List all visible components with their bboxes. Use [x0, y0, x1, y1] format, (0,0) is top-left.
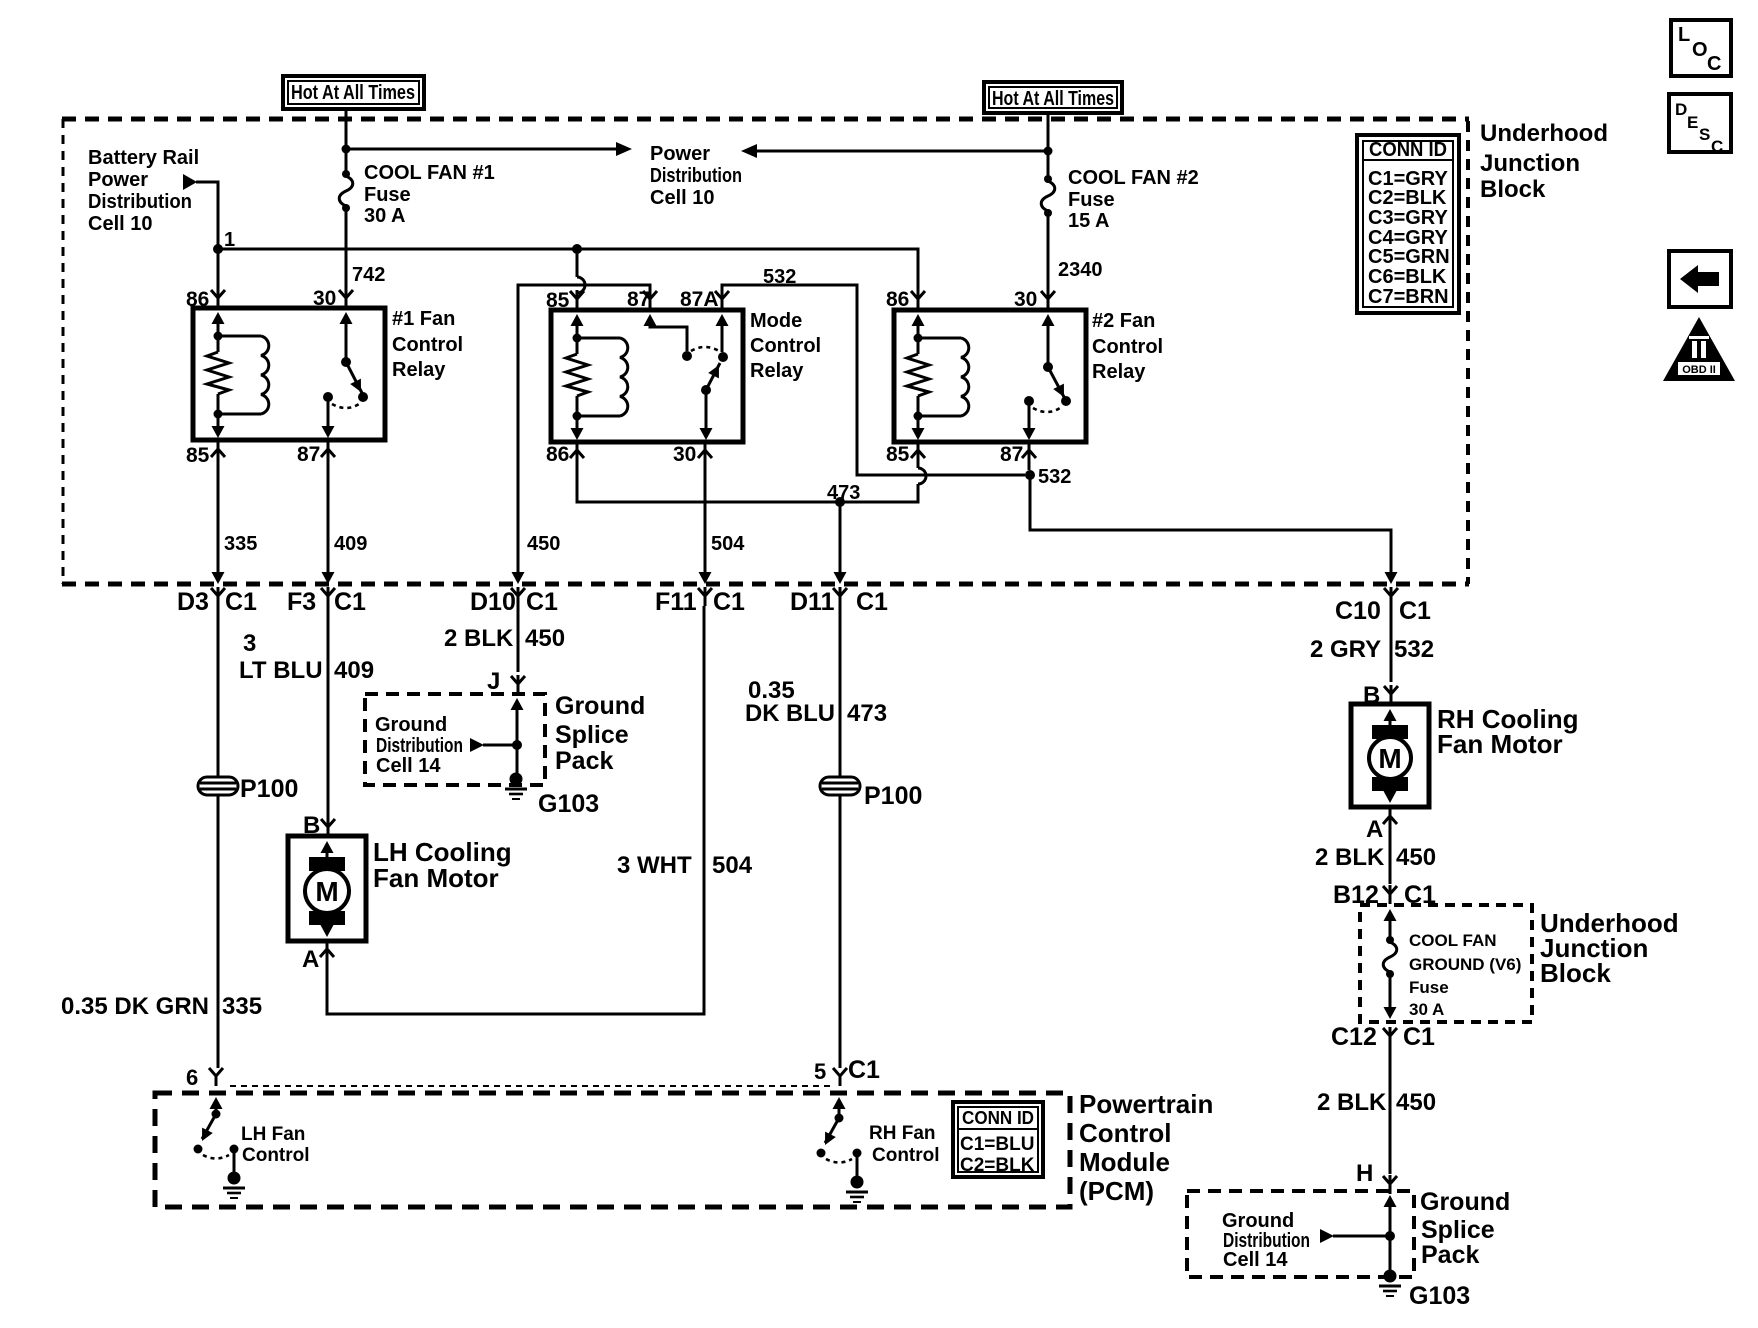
svg-text:85: 85 [546, 289, 570, 312]
svg-text:B12: B12 [1333, 881, 1379, 909]
svg-text:Block: Block [1540, 958, 1611, 988]
svg-text:87: 87 [627, 288, 650, 311]
svg-text:Junction: Junction [1480, 150, 1580, 177]
svg-text:C2=BLK: C2=BLK [1368, 187, 1447, 209]
svg-text:Control: Control [872, 1145, 940, 1166]
svg-text:Distribution: Distribution [88, 191, 192, 213]
svg-text:Cell 14: Cell 14 [376, 755, 441, 777]
svg-text:COOL FAN #2: COOL FAN #2 [1068, 167, 1199, 189]
svg-text:RH Fan: RH Fan [869, 1123, 936, 1144]
svg-text:85: 85 [886, 443, 910, 466]
svg-text:H: H [1356, 1160, 1373, 1187]
svg-text:30: 30 [1014, 288, 1037, 311]
svg-text:Powertrain: Powertrain [1079, 1089, 1213, 1119]
svg-text:Ground: Ground [1222, 1210, 1294, 1232]
svg-text:D: D [1675, 100, 1687, 119]
svg-text:CONN ID: CONN ID [962, 1108, 1034, 1128]
svg-text:P100: P100 [864, 782, 922, 810]
svg-text:473: 473 [827, 482, 860, 504]
svg-text:DK BLU: DK BLU [745, 700, 835, 727]
svg-text:30 A: 30 A [364, 205, 406, 227]
svg-text:504: 504 [712, 852, 753, 879]
svg-text:86: 86 [886, 288, 909, 311]
svg-text:30: 30 [313, 287, 336, 310]
svg-text:C1: C1 [334, 588, 366, 616]
svg-text:450: 450 [1396, 1089, 1436, 1116]
svg-text:Block: Block [1480, 176, 1546, 203]
svg-text:C1=BLU: C1=BLU [960, 1134, 1034, 1155]
svg-text:Ground: Ground [555, 692, 645, 720]
svg-text:COOL FAN #1: COOL FAN #1 [364, 162, 495, 184]
svg-text:Control: Control [1079, 1118, 1171, 1148]
svg-text:Control: Control [392, 334, 463, 356]
svg-text:C6=BLK: C6=BLK [1368, 266, 1447, 288]
svg-text:504: 504 [711, 533, 745, 555]
svg-text:C12: C12 [1331, 1023, 1377, 1051]
svg-text:473: 473 [847, 700, 887, 727]
svg-text:86: 86 [186, 288, 209, 311]
svg-text:A: A [302, 946, 319, 973]
svg-text:C1: C1 [713, 588, 745, 616]
svg-text:335: 335 [224, 533, 257, 555]
svg-text:Control: Control [750, 335, 821, 357]
svg-text:Cell 10: Cell 10 [88, 213, 152, 235]
svg-text:D3: D3 [177, 588, 209, 616]
svg-text:C7=BRN: C7=BRN [1368, 286, 1449, 308]
svg-text:M: M [315, 876, 338, 907]
svg-text:Pack: Pack [555, 747, 613, 775]
svg-text:Battery Rail: Battery Rail [88, 147, 199, 169]
svg-text:C10: C10 [1335, 597, 1381, 625]
svg-text:Control: Control [242, 1145, 310, 1166]
svg-text:E: E [1687, 113, 1698, 132]
svg-text:409: 409 [334, 657, 374, 684]
svg-text:D10: D10 [470, 588, 516, 616]
svg-text:87: 87 [1000, 443, 1023, 466]
svg-text:LH Fan: LH Fan [241, 1124, 305, 1145]
svg-text:C2=BLK: C2=BLK [960, 1155, 1035, 1176]
svg-text:2 GRY: 2 GRY [1310, 636, 1381, 663]
svg-text:COOL FAN: COOL FAN [1409, 931, 1497, 950]
svg-text:#1 Fan: #1 Fan [392, 308, 455, 330]
svg-text:Fan Motor: Fan Motor [1437, 729, 1563, 759]
svg-text:Cell 10: Cell 10 [650, 187, 714, 209]
svg-text:532: 532 [1038, 466, 1071, 488]
svg-text:Fan Motor: Fan Motor [373, 863, 499, 893]
svg-text:Hot At All Times: Hot At All Times [992, 88, 1114, 110]
svg-text:742: 742 [352, 264, 385, 286]
svg-text:GROUND (V6): GROUND (V6) [1409, 955, 1521, 974]
svg-text:Relay: Relay [750, 360, 804, 382]
svg-text:C3=GRY: C3=GRY [1368, 207, 1449, 229]
svg-text:2 BLK: 2 BLK [444, 625, 514, 652]
svg-text:Fuse: Fuse [1068, 189, 1115, 211]
svg-text:87A: 87A [680, 288, 719, 311]
svg-text:Distribution: Distribution [376, 735, 463, 757]
svg-text:C1: C1 [1403, 1023, 1435, 1051]
svg-text:0.35 DK GRN: 0.35 DK GRN [61, 993, 209, 1020]
svg-text:A: A [1366, 816, 1383, 843]
svg-text:Relay: Relay [392, 359, 446, 381]
svg-text:87: 87 [297, 443, 320, 466]
svg-text:Splice: Splice [1421, 1216, 1495, 1244]
svg-text:Splice: Splice [555, 721, 629, 749]
svg-text:532: 532 [1394, 636, 1434, 663]
svg-text:450: 450 [527, 533, 560, 555]
svg-text:30 A: 30 A [1409, 1000, 1444, 1019]
svg-text:OBD II: OBD II [1682, 364, 1716, 376]
svg-text:Distribution: Distribution [650, 165, 742, 187]
svg-text:#2 Fan: #2 Fan [1092, 310, 1155, 332]
svg-text:S: S [1699, 125, 1710, 144]
svg-text:F11: F11 [655, 588, 697, 616]
svg-text:C1: C1 [1399, 597, 1431, 625]
svg-text:C1: C1 [856, 588, 888, 616]
svg-text:Module: Module [1079, 1147, 1170, 1177]
svg-text:M: M [1378, 743, 1401, 774]
svg-text:3: 3 [243, 630, 256, 657]
svg-text:Ground: Ground [375, 714, 447, 736]
svg-text:30: 30 [673, 443, 696, 466]
svg-text:C: C [1707, 53, 1721, 75]
svg-text:P100: P100 [240, 775, 298, 803]
svg-text:86: 86 [546, 443, 569, 466]
svg-text:C1: C1 [848, 1056, 880, 1084]
svg-text:Fuse: Fuse [364, 184, 411, 206]
svg-text:85: 85 [186, 444, 210, 467]
svg-text:Underhood: Underhood [1480, 120, 1608, 147]
svg-text:Control: Control [1092, 336, 1163, 358]
svg-text:G103: G103 [538, 790, 599, 818]
svg-text:C5=GRN: C5=GRN [1368, 246, 1450, 268]
svg-text:D11: D11 [790, 588, 835, 616]
svg-text:Hot At All Times: Hot At All Times [291, 82, 415, 104]
svg-text:Relay: Relay [1092, 361, 1146, 383]
svg-text:J: J [487, 668, 500, 695]
svg-text:L: L [1678, 24, 1690, 46]
svg-text:Mode: Mode [750, 310, 802, 332]
svg-text:C1: C1 [526, 588, 558, 616]
svg-text:532: 532 [763, 266, 796, 288]
svg-text:Cell 14: Cell 14 [1223, 1249, 1288, 1271]
svg-text:450: 450 [525, 625, 565, 652]
svg-text:5: 5 [814, 1059, 826, 1084]
svg-text:G103: G103 [1409, 1282, 1470, 1310]
svg-text:335: 335 [222, 993, 262, 1020]
svg-text:15 A: 15 A [1068, 210, 1110, 232]
svg-text:2340: 2340 [1058, 259, 1103, 281]
svg-text:Fuse: Fuse [1409, 978, 1449, 997]
svg-text:6: 6 [186, 1065, 198, 1090]
svg-text:C1: C1 [225, 588, 257, 616]
svg-text:(PCM): (PCM) [1079, 1176, 1154, 1206]
svg-text:LT BLU: LT BLU [239, 657, 323, 684]
svg-text:409: 409 [334, 533, 367, 555]
svg-text:CONN ID: CONN ID [1369, 139, 1447, 161]
svg-text:O: O [1692, 39, 1708, 61]
svg-text:Power: Power [88, 169, 148, 191]
svg-text:Pack: Pack [1421, 1241, 1479, 1269]
svg-text:2 BLK: 2 BLK [1315, 844, 1385, 871]
svg-text:2 BLK: 2 BLK [1317, 1089, 1387, 1116]
svg-text:Power: Power [650, 143, 710, 165]
svg-text:C: C [1711, 137, 1723, 156]
svg-text:450: 450 [1396, 844, 1436, 871]
svg-text:F3: F3 [287, 588, 316, 616]
svg-text:3 WHT: 3 WHT [617, 852, 692, 879]
svg-text:Ground: Ground [1420, 1188, 1510, 1216]
